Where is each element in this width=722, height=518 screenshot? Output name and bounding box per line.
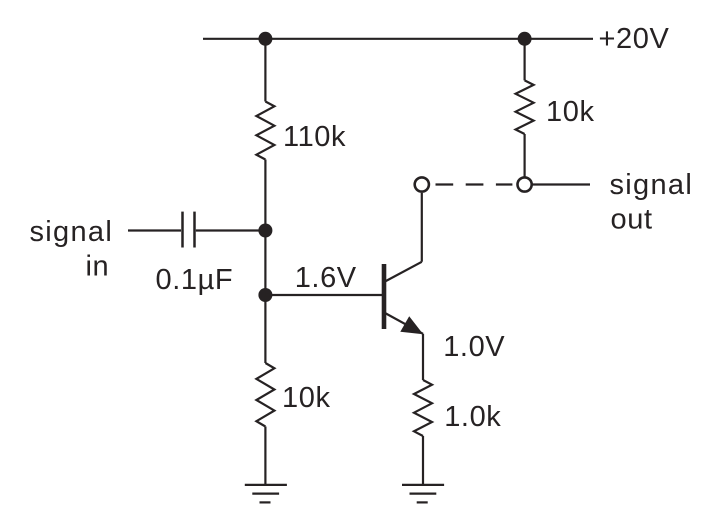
- svg-text:1.6V: 1.6V: [295, 262, 357, 294]
- svg-text:0.1µF: 0.1µF: [156, 264, 234, 296]
- node label: signal in: [30, 216, 114, 283]
- wire: rail down to top of right 10k resistor: [523, 39, 525, 81]
- wire: rail down to top of 110k resistor: [264, 39, 266, 102]
- node: open circle output node: [518, 177, 532, 191]
- wire: dashed link between tap circles: [436, 183, 513, 185]
- resistor R3 10k (collector load): [516, 80, 534, 134]
- wire: 110k resistor down to input node: [264, 160, 266, 231]
- svg-text:10k: 10k: [546, 96, 595, 128]
- svg-text:signal: signal: [610, 169, 694, 201]
- ground: right ground symbol: [402, 485, 444, 503]
- node: open circle collector tap: [415, 177, 429, 191]
- wire: collector up to output tap circle: [421, 193, 423, 262]
- wire: emitter down to top of 1.0k resistor: [422, 334, 424, 380]
- ground: left ground symbol: [245, 485, 287, 503]
- resistor R2 10k (lower left): [256, 363, 274, 427]
- wire: lower 10k resistor down to ground: [264, 427, 266, 485]
- wire: base node down to top of lower 10k resistor: [264, 295, 266, 363]
- capacitor C1 0.1uF: [183, 212, 195, 248]
- wire: output circle to signal-out lead: [532, 183, 591, 185]
- node B: base node dot: [258, 288, 272, 302]
- wire: 1.0k resistor down to ground: [422, 436, 424, 485]
- wire: input node down to base node: [264, 231, 266, 296]
- wire: signal-in lead to capacitor: [128, 229, 181, 231]
- svg-text:110k: 110k: [283, 121, 346, 153]
- svg-text:signal: signal: [30, 216, 114, 248]
- wire: capacitor to input node: [196, 229, 266, 231]
- svg-text:in: in: [86, 251, 110, 283]
- wire: right 10k resistor down to output circle: [523, 134, 525, 178]
- svg-text:1.0V: 1.0V: [443, 331, 505, 363]
- node A: input node dot (capacitor junction): [258, 224, 272, 238]
- resistor R4 1.0k (emitter): [414, 380, 432, 436]
- wire: +20V top supply rail: [203, 38, 593, 40]
- wire: base node to transistor base: [265, 294, 382, 296]
- svg-text:1.0k: 1.0k: [444, 401, 501, 433]
- svg-text:10k: 10k: [282, 382, 331, 414]
- resistor R1 110k: [256, 102, 274, 160]
- node label: signal out: [610, 169, 694, 235]
- transistor Q1 (NPN): [384, 262, 423, 335]
- node: junction dot on rail above 110k resistor: [258, 32, 272, 46]
- svg-text:+20V: +20V: [599, 23, 670, 55]
- svg-text:out: out: [611, 203, 653, 235]
- node: junction dot on rail above right 10k resistor: [518, 32, 532, 46]
